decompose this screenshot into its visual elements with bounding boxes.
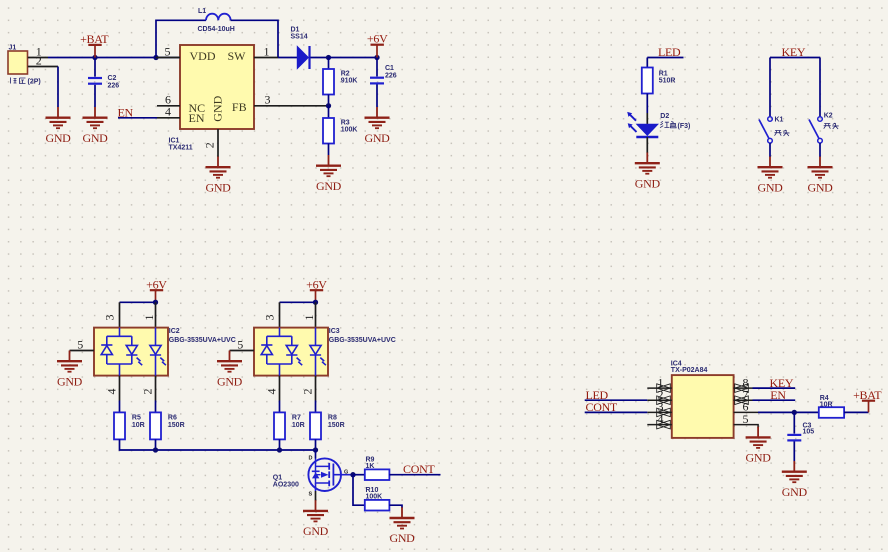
junction +6V / IC3 pin1: [313, 300, 318, 305]
wire IC3 pin4 to R7: [279, 401, 281, 413]
wire pin6 to R4: [758, 411, 819, 413]
svg-text:2: 2: [36, 53, 42, 67]
svg-text:K2: K2: [824, 113, 833, 120]
wire J1 pin2 to GND: [57, 67, 59, 108]
IC2 pin 2: [155, 376, 157, 401]
switch K1: [759, 117, 784, 144]
wire R7 to bus: [279, 439, 281, 450]
wire pin7 EN: [753, 399, 796, 401]
IC1 pin 5 VDD: [156, 57, 180, 59]
wire Q1 source to GND: [315, 491, 317, 501]
wire K1 to GND: [769, 143, 771, 157]
svg-text:10R: 10R: [132, 422, 145, 429]
svg-text:J1: J1: [9, 45, 17, 52]
svg-text:AO2300: AO2300: [273, 481, 299, 488]
power port +6V at IC2: [146, 277, 167, 302]
svg-text:+6V: +6V: [306, 277, 327, 291]
wire to K2: [819, 58, 821, 117]
connector J1: [8, 45, 28, 75]
wire LED to R1: [646, 58, 648, 68]
svg-text:3: 3: [263, 315, 277, 321]
transistor Q1 AO2300: [273, 456, 353, 498]
wire R8 to bus: [315, 439, 317, 450]
svg-text:1: 1: [142, 315, 156, 321]
svg-text:5: 5: [743, 412, 749, 426]
ground under D2: [635, 153, 661, 191]
IC3 internal UVA led: [310, 328, 326, 376]
wire CONT to pin3: [585, 411, 648, 413]
svg-text:GBG-3535UVA+UVC: GBG-3535UVA+UVC: [169, 337, 236, 344]
svg-text:R5: R5: [132, 414, 141, 421]
wire gate to R9: [353, 474, 365, 476]
ground under C3: [782, 461, 808, 499]
ground under K1: [757, 157, 783, 195]
capacitor C2: [88, 58, 119, 108]
IC2 body: [94, 328, 236, 376]
IC2 pin 3: [119, 302, 121, 327]
svg-text:10R: 10R: [292, 422, 305, 429]
svg-text:150R: 150R: [168, 422, 185, 429]
IC2 pin 1: [155, 302, 157, 327]
svg-text:D2: D2: [660, 113, 669, 120]
IC3 pin 4: [279, 376, 281, 401]
svg-text:100K: 100K: [341, 127, 358, 134]
junction R8 / bus / Q1 drain: [313, 447, 318, 452]
wire LED to pin2: [585, 399, 648, 401]
svg-text:C1: C1: [385, 65, 394, 72]
svg-text:105: 105: [803, 429, 815, 436]
wire IC2 pin2 to R6: [155, 401, 157, 413]
D2 comment 红色(F3): [660, 121, 676, 128]
IC2 pin 4: [119, 376, 121, 401]
IC3 pin 2: [315, 376, 317, 401]
wire K2 to GND: [819, 143, 821, 157]
svg-text:150R: 150R: [328, 422, 345, 429]
junction R7 / bus: [277, 447, 282, 452]
switch K2: [809, 113, 833, 144]
junction at L1 left: [153, 55, 158, 60]
svg-text:4: 4: [658, 412, 664, 426]
svg-text:226: 226: [108, 82, 120, 89]
ground under C1: [364, 107, 390, 145]
J1 comment 排座(2P): [11, 78, 26, 84]
svg-text:G: G: [344, 469, 348, 475]
svg-text:1K: 1K: [366, 463, 375, 470]
junction +6V / IC2 pin1: [153, 300, 158, 305]
svg-text:2: 2: [203, 142, 217, 148]
svg-text:CONT: CONT: [403, 462, 435, 476]
inductor L1: [156, 8, 278, 58]
resistor R7: [274, 412, 305, 439]
K1 comment 开关: [775, 130, 790, 136]
IC3 body: [254, 328, 396, 376]
svg-text:5: 5: [165, 44, 171, 58]
junction at +BAT: [92, 55, 97, 60]
ground under IC4 pin5: [746, 427, 772, 465]
svg-text:4: 4: [105, 389, 119, 395]
svg-text:910K: 910K: [341, 78, 358, 85]
svg-text:2: 2: [141, 389, 155, 395]
svg-text:1: 1: [264, 44, 270, 58]
wire +6V to IC2 pin3: [120, 301, 156, 303]
svg-text:R2: R2: [341, 70, 350, 77]
svg-text:SW: SW: [228, 49, 247, 63]
svg-text:IC1: IC1: [169, 138, 180, 145]
K2 comment 开关: [824, 123, 839, 129]
resistor R10: [365, 487, 390, 510]
IC3 internal UVC diode pair: [261, 328, 302, 376]
svg-text:100K: 100K: [366, 494, 383, 501]
svg-text:TX-P02A84: TX-P02A84: [671, 367, 708, 374]
svg-text:D1: D1: [291, 27, 300, 34]
svg-text:+6V: +6V: [367, 32, 388, 46]
svg-text:(2P): (2P): [28, 79, 41, 86]
junction +6V / C1: [374, 55, 379, 60]
svg-text:4: 4: [165, 105, 171, 119]
svg-text:5: 5: [237, 337, 243, 351]
power port +BAT: [80, 32, 109, 58]
svg-text:5: 5: [77, 337, 83, 351]
svg-text:4: 4: [265, 389, 279, 395]
IC1 body: [169, 45, 255, 152]
svg-text:D: D: [309, 456, 313, 462]
ground at IC2 pin5: [57, 351, 83, 389]
IC2 pin 5: [70, 350, 95, 352]
wire gate to R10: [353, 475, 365, 506]
svg-text:VDD: VDD: [190, 49, 216, 63]
wire to K1: [769, 58, 771, 117]
IC3 pin 3: [279, 302, 281, 327]
svg-text:IC3: IC3: [329, 328, 340, 335]
IC4 pin 4: [647, 424, 672, 426]
IC1 pin 3 FB: [254, 105, 329, 107]
IC1 pin 2 GND: [217, 129, 219, 157]
IC4 body: [671, 360, 734, 438]
svg-text:TX4211: TX4211: [169, 145, 193, 152]
svg-text:GBG-3535UVA+UVC: GBG-3535UVA+UVC: [329, 337, 396, 344]
J1 pin 2: [28, 66, 58, 68]
power port +BAT right: [853, 388, 882, 413]
junction R6 / bus: [153, 447, 158, 452]
IC4 pin 1: [647, 387, 672, 389]
svg-text:CD54-10uH: CD54-10uH: [198, 26, 235, 33]
IC3 pin 5: [230, 350, 255, 352]
wire D1 to +6V: [329, 57, 378, 59]
ground at IC3 pin5: [217, 351, 243, 389]
junction FB / R2 / R3: [326, 103, 331, 108]
junction D1 / R2: [326, 55, 331, 60]
svg-text:R7: R7: [292, 414, 301, 421]
J1 pin 1: [28, 57, 48, 59]
IC3 pin 1: [315, 302, 317, 327]
svg-text:226: 226: [385, 73, 397, 80]
svg-text:+BAT: +BAT: [853, 388, 882, 402]
junction pin6 / C3: [792, 410, 797, 415]
wire LED net: [647, 57, 683, 59]
svg-text:C2: C2: [108, 75, 117, 82]
resistor R2: [323, 58, 357, 106]
svg-text:L1: L1: [198, 8, 206, 15]
wire R4 to +BAT: [844, 411, 868, 413]
capacitor C3: [787, 412, 814, 461]
svg-text:3: 3: [265, 92, 271, 106]
svg-text:R3: R3: [341, 119, 350, 126]
svg-text:+BAT: +BAT: [80, 32, 109, 46]
wire KEY net: [770, 57, 820, 59]
svg-text:FB: FB: [232, 100, 247, 114]
svg-text:+6V: +6V: [146, 277, 167, 291]
ground under R3: [316, 155, 342, 193]
ground under Q1: [303, 500, 329, 538]
wire pin8 KEY: [753, 387, 796, 389]
IC4 pin 3: [647, 411, 672, 413]
junction Q1 gate: [350, 472, 355, 477]
svg-text:2: 2: [301, 389, 315, 395]
svg-text:R1: R1: [659, 70, 668, 77]
svg-text:EN: EN: [189, 111, 205, 125]
svg-text:10R: 10R: [820, 401, 833, 408]
resistor R3: [323, 106, 357, 155]
IC1 pin 4 EN: [157, 117, 180, 119]
IC4 pin 2: [647, 399, 672, 401]
IC2 internal UVA led: [150, 328, 166, 376]
resistor R9: [365, 456, 390, 480]
IC4 pin 8: [734, 387, 753, 389]
svg-text:3: 3: [103, 315, 117, 321]
svg-text:1: 1: [302, 315, 316, 321]
wire R1 to D2: [646, 94, 648, 114]
resistor R4: [819, 395, 844, 418]
IC4 pin 6: [734, 411, 758, 413]
ground under J1 pin2: [45, 107, 71, 145]
wire R9 to CONT: [389, 474, 440, 476]
svg-text:R6: R6: [168, 414, 177, 421]
resistor R5: [114, 412, 145, 439]
LED D2: [627, 112, 669, 153]
wire +6V to IC3 pin3: [280, 301, 316, 303]
resistor R6: [150, 412, 185, 439]
IC2 internal UVC diode pair: [101, 328, 142, 376]
wire IC3 pin2 to R8: [315, 401, 317, 413]
resistor R8: [310, 412, 345, 439]
wire main +BAT rail: [48, 57, 180, 59]
wire EN: [118, 117, 157, 119]
diode D1 SS14: [278, 27, 329, 70]
ground under C2: [82, 107, 108, 145]
svg-text:K1: K1: [775, 117, 784, 124]
ground under K2: [807, 157, 833, 195]
wire cathode bus: [120, 439, 316, 450]
power port +6V top: [367, 32, 388, 58]
capacitor C1: [370, 58, 397, 108]
svg-text:(F3): (F3): [678, 123, 691, 130]
wire R10 to GND: [389, 505, 402, 508]
ground under R10: [389, 507, 415, 545]
svg-text:S: S: [309, 492, 313, 498]
IC1 pin 6 NC: [157, 105, 180, 107]
svg-text:R8: R8: [328, 414, 337, 421]
svg-text:IC2: IC2: [169, 328, 180, 335]
power port +6V at IC3: [306, 277, 327, 302]
resistor R1: [642, 68, 676, 94]
wire R6 to bus: [155, 439, 157, 450]
svg-text:510R: 510R: [659, 78, 676, 85]
IC4 pin 5: [734, 425, 759, 428]
svg-text:SS14: SS14: [291, 34, 308, 41]
IC1 pin 1 SW: [254, 57, 278, 59]
svg-text:GND: GND: [211, 95, 225, 121]
IC4 pin 7: [734, 399, 753, 401]
ground under IC1 pin2: [205, 157, 231, 195]
wire bus to Q1 drain: [315, 450, 317, 459]
wire IC2 pin4 to R5: [119, 401, 121, 413]
